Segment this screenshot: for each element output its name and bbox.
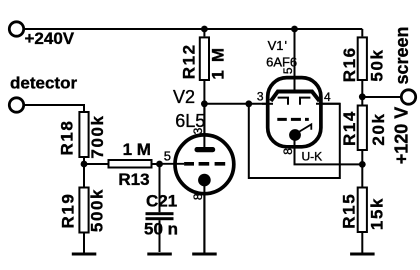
svg-text:50k: 50k xyxy=(367,48,386,81)
svg-text:500k: 500k xyxy=(88,188,107,232)
svg-text:1 M: 1 M xyxy=(209,46,228,79)
svg-text:R12: R12 xyxy=(180,43,199,79)
svg-text:+240V: +240V xyxy=(25,29,75,48)
svg-text:50 n: 50 n xyxy=(144,220,178,239)
svg-text:R19: R19 xyxy=(59,193,78,229)
svg-text:R15: R15 xyxy=(340,193,359,229)
svg-text:6L5: 6L5 xyxy=(175,111,205,131)
svg-text:1 M: 1 M xyxy=(123,140,151,159)
svg-text:V2: V2 xyxy=(173,87,195,107)
svg-text:4: 4 xyxy=(324,90,331,104)
svg-text:detector: detector xyxy=(10,74,77,93)
svg-text:screen: screen xyxy=(392,26,412,84)
svg-text:R14: R14 xyxy=(340,110,359,146)
svg-text:8: 8 xyxy=(191,193,205,200)
svg-text:R13: R13 xyxy=(118,170,149,189)
svg-text:R16: R16 xyxy=(340,46,359,82)
svg-text:3: 3 xyxy=(257,90,264,104)
svg-text:15k: 15k xyxy=(367,197,386,230)
svg-text:700k: 700k xyxy=(88,114,107,158)
svg-text:C21: C21 xyxy=(146,192,177,211)
svg-text:20k: 20k xyxy=(369,112,388,145)
svg-text:': ' xyxy=(285,38,287,53)
svg-text:+120 V: +120 V xyxy=(392,107,412,165)
svg-text:R18: R18 xyxy=(58,120,77,156)
svg-text:6AF6: 6AF6 xyxy=(266,54,297,69)
svg-text:8: 8 xyxy=(281,148,295,155)
svg-text:5: 5 xyxy=(164,149,171,164)
svg-text:U-K: U-K xyxy=(302,149,323,163)
svg-text:V1: V1 xyxy=(268,38,284,53)
